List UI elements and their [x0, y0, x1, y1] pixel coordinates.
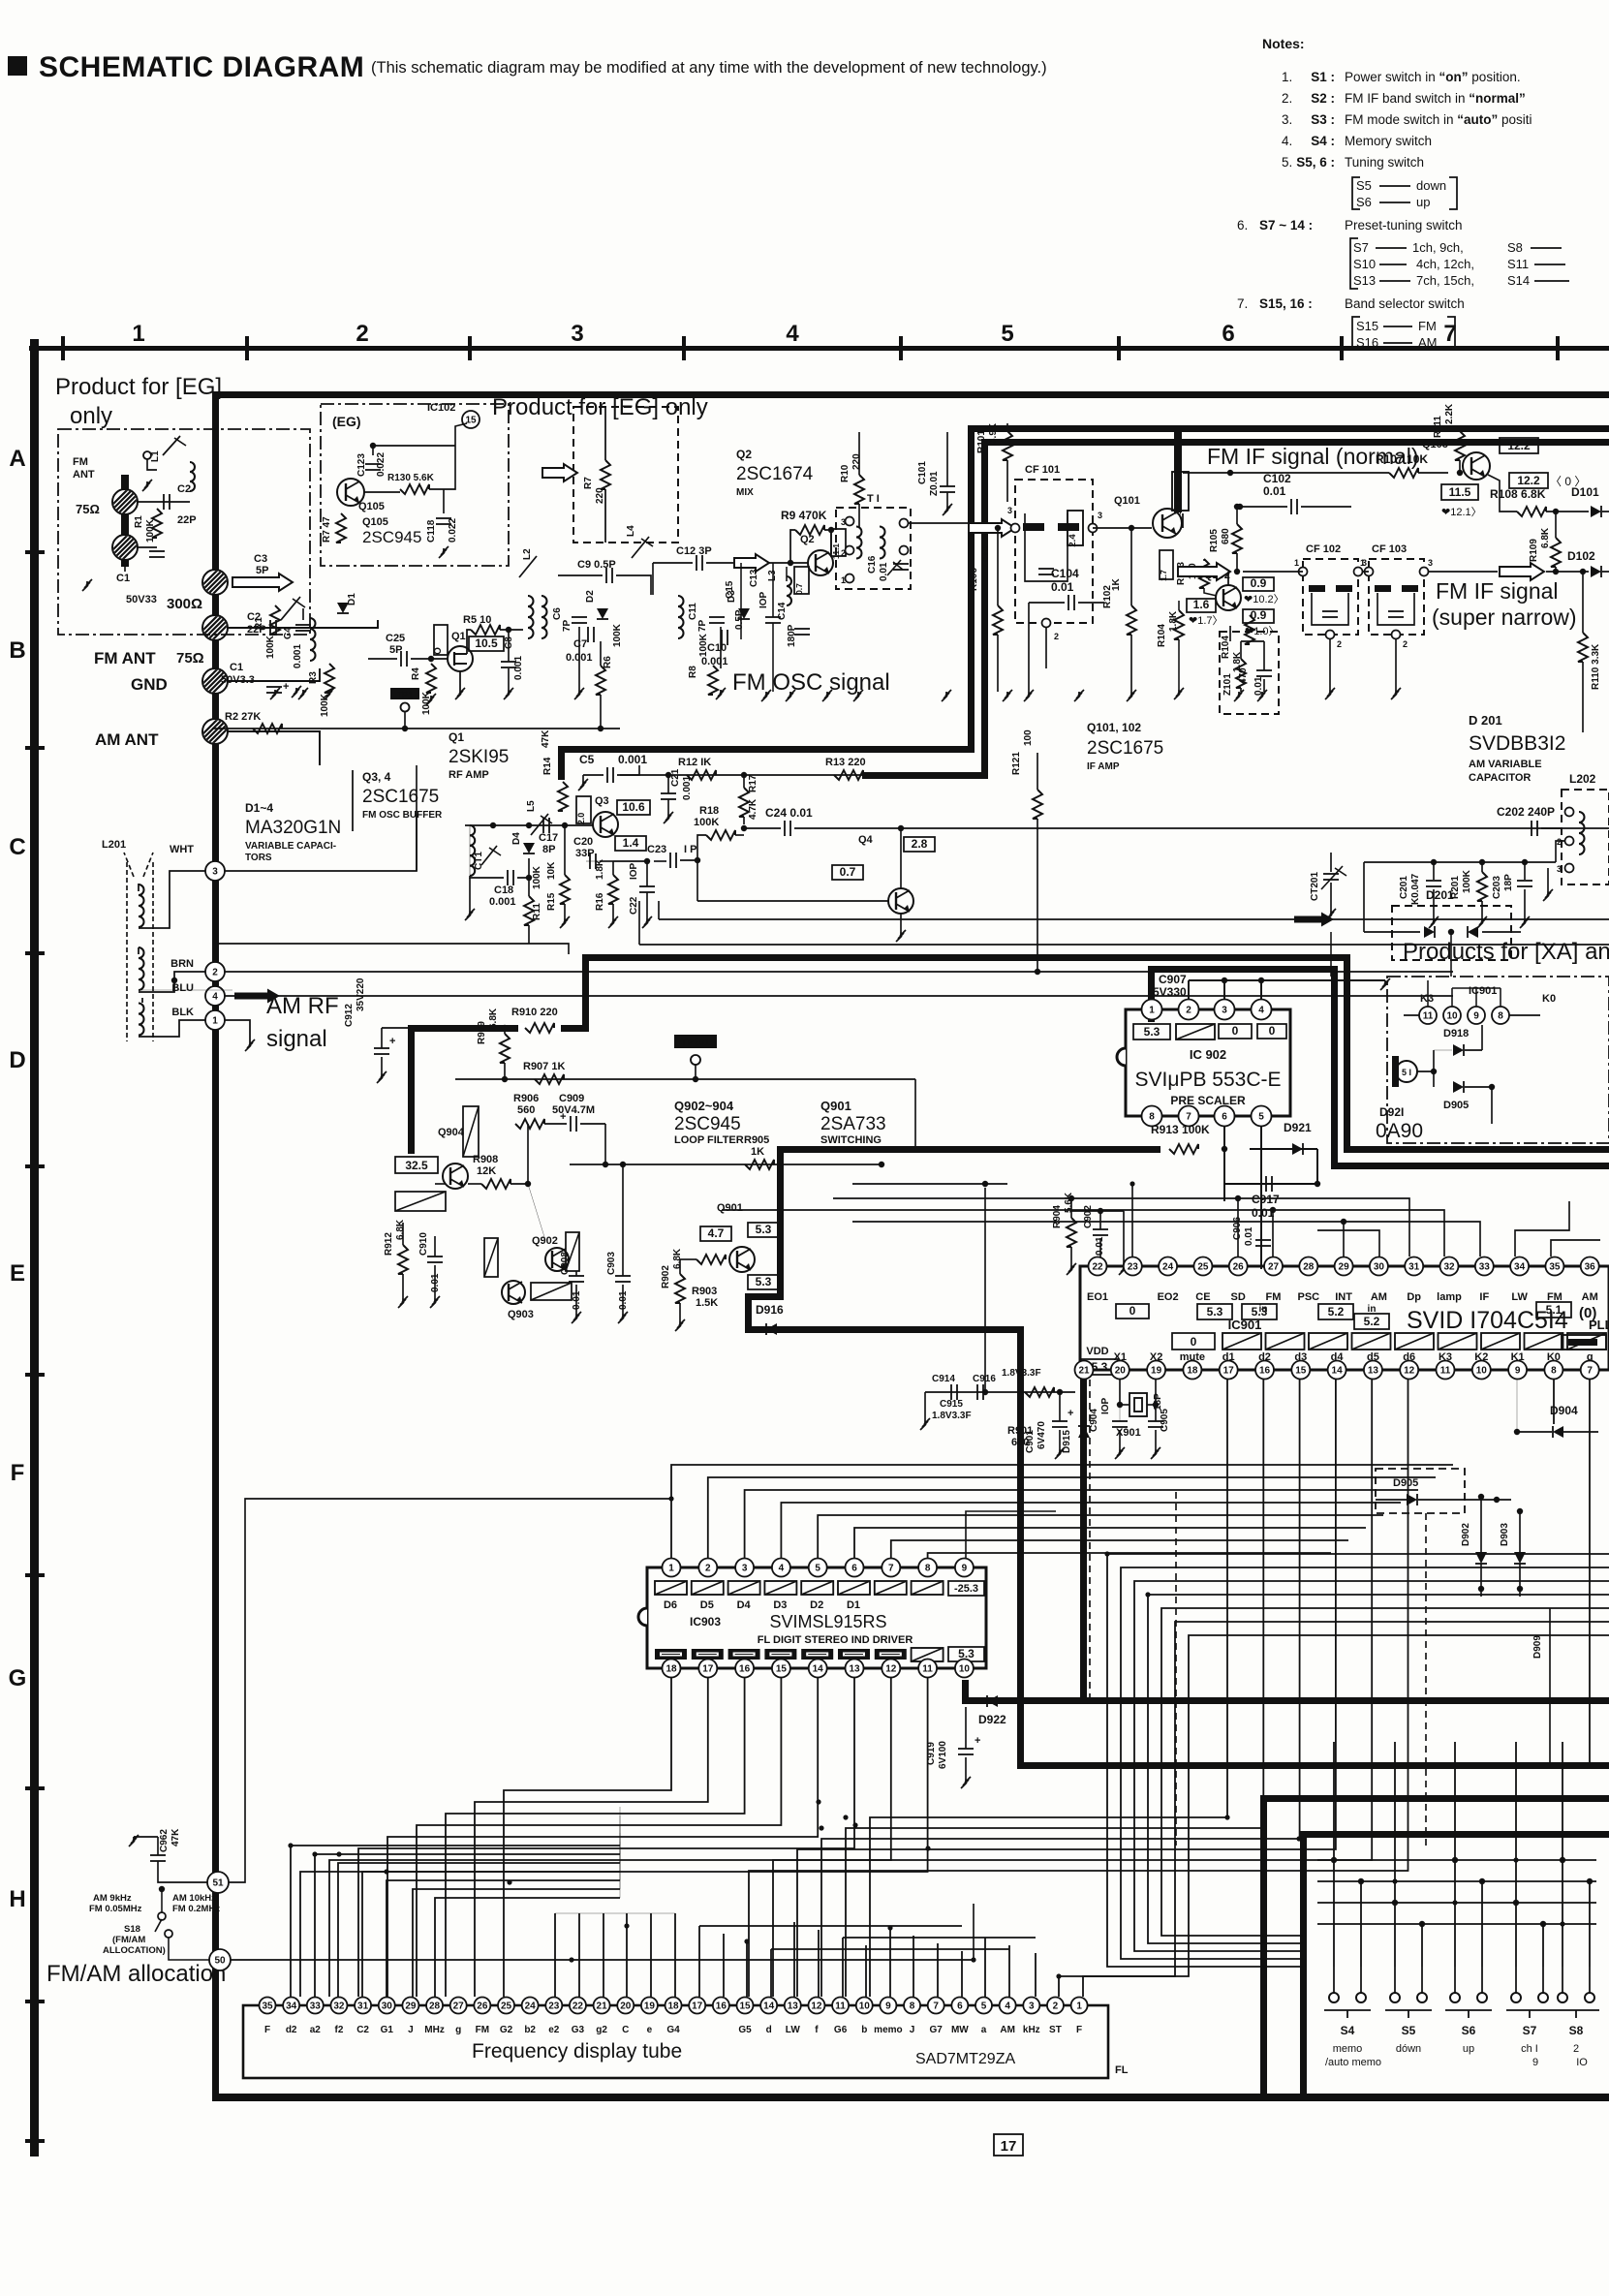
svg-text:R109: R109 [1529, 539, 1539, 562]
svg-text:2: 2 [705, 1564, 711, 1574]
svg-text:R14: R14 [542, 757, 553, 775]
svg-text:1: 1 [1076, 2001, 1082, 2012]
T1 trimmer arrow [887, 560, 901, 575]
switch S5 wires [1394, 1967, 1396, 1993]
node 4 circle [205, 986, 225, 1006]
svg-text:d: d [766, 2025, 772, 2035]
svg-text:Q2: Q2 [736, 448, 752, 461]
junction dots sprinkle [569, 1957, 573, 1962]
svg-text:IC102: IC102 [427, 402, 455, 414]
C22 10P [639, 885, 655, 887]
tube pin 27 [450, 1998, 467, 2014]
svg-text:IC 902: IC 902 [1190, 1047, 1226, 1062]
IC901 pin 8 [1544, 1361, 1563, 1380]
R7 47 resistor [336, 513, 346, 543]
svg-text:0: 0 [1269, 1024, 1276, 1038]
svg-text:R908: R908 [473, 1154, 498, 1165]
svg-text:Q902: Q902 [532, 1235, 558, 1247]
svg-text:C23: C23 [647, 844, 666, 855]
IC903 pin 8 [918, 1559, 937, 1577]
tube pin 4 [1000, 1998, 1016, 2014]
C919 6V100 [958, 1748, 974, 1750]
svg-text:33: 33 [310, 2001, 322, 2012]
tube pin 12 [808, 1998, 824, 2014]
IC901 pin 36 [1581, 1257, 1599, 1276]
svg-text:Notes:: Notes: [1262, 36, 1305, 51]
tube pin 8 [904, 1998, 920, 2014]
svg-text:-25.3: -25.3 [954, 1583, 978, 1595]
C903 0.01 [615, 1275, 631, 1277]
Q902 transistor [545, 1248, 569, 1271]
svg-text:g: g [455, 2025, 461, 2035]
svg-text:R18: R18 [699, 805, 719, 817]
svg-text:D4: D4 [737, 1599, 752, 1611]
tube pin 14 [760, 1998, 777, 2014]
svg-text:22P: 22P [177, 514, 197, 526]
svg-text:R201: R201 [1450, 876, 1461, 899]
svg-text:D915: D915 [1062, 1430, 1072, 1453]
svg-text:2: 2 [1337, 639, 1342, 649]
svg-text:34: 34 [286, 2001, 297, 2012]
svg-text:SVDBB3I2: SVDBB3I2 [1469, 732, 1565, 755]
svg-text:L2: L2 [522, 548, 533, 560]
svg-text:SVIMSL915RS: SVIMSL915RS [769, 1612, 886, 1631]
XA wires [1417, 1070, 1434, 1072]
heavy run y773 to R14 [558, 746, 975, 753]
svg-text:14: 14 [763, 2001, 775, 2012]
svg-text:MIX: MIX [736, 487, 754, 498]
IC902 pin 5 [1252, 1106, 1272, 1127]
svg-text:C104: C104 [1051, 567, 1079, 580]
svg-text:D4: D4 [511, 832, 522, 845]
vertical from R907 line [914, 1079, 916, 1149]
wire node4 BLU bus [225, 995, 1453, 997]
svg-text:+: + [1068, 1408, 1073, 1419]
wire to IC903 pin 5 [818, 1515, 1383, 1558]
svg-text:C202 240P: C202 240P [1497, 805, 1555, 819]
tube pin 30 [379, 1998, 395, 2014]
svg-text:1: 1 [1149, 1006, 1155, 1016]
svg-text:2.: 2. [1282, 91, 1292, 106]
R905 1K line [570, 1164, 882, 1165]
svg-text:13: 13 [849, 1664, 860, 1675]
svg-text:TORS: TORS [245, 853, 272, 863]
R12 1K rail y800 [620, 774, 862, 776]
TP201 black box [674, 1035, 717, 1048]
svg-text:K0: K0 [1542, 993, 1556, 1005]
svg-text:AM 9kHz: AM 9kHz [93, 1893, 132, 1904]
svg-text:21: 21 [1078, 1366, 1090, 1377]
svg-text:1ch, 9ch,: 1ch, 9ch, [1412, 240, 1464, 255]
svg-text:e2: e2 [548, 2025, 560, 2035]
svg-text:7: 7 [933, 2001, 939, 2012]
svg-text:S6: S6 [1356, 195, 1372, 209]
svg-text:33P: 33P [575, 848, 595, 859]
svg-text:R7 47: R7 47 [322, 516, 332, 543]
svg-text:ANT: ANT [73, 469, 95, 481]
tube pin 33 [307, 1998, 324, 2014]
svg-text:AM: AM [1582, 1291, 1598, 1303]
svg-text:25: 25 [1197, 1262, 1209, 1273]
products for XA dash-dot box [1387, 977, 1609, 1143]
IC901 pin 17 [1220, 1361, 1238, 1380]
IC902 pin 8 [1142, 1106, 1162, 1127]
R913 resistor [1169, 1144, 1198, 1154]
IC902 pin 6 [1215, 1106, 1235, 1127]
D905 diode xa [1453, 1081, 1464, 1093]
svg-text:❤1.7〉: ❤1.7〉 [1189, 614, 1223, 627]
svg-text:2SC945: 2SC945 [362, 528, 421, 546]
solid arrow on y949 [1294, 913, 1334, 927]
svg-text:R105: R105 [1209, 529, 1220, 552]
svg-text:Tuning switch: Tuning switch [1345, 155, 1424, 170]
Q904 transistor [443, 1164, 468, 1189]
C118 0.022 [436, 517, 451, 519]
svg-text:C912: C912 [344, 1004, 355, 1027]
svg-text:LOOP FILTER: LOOP FILTER [674, 1134, 744, 1146]
svg-text:SCHEMATIC DIAGRAM: SCHEMATIC DIAGRAM [39, 51, 364, 83]
svg-text:memo: memo [874, 2025, 902, 2035]
svg-text:3: 3 [1222, 1006, 1227, 1016]
svg-text:Frequency display tube: Frequency display tube [472, 2040, 682, 2063]
IC903 pin 15 [772, 1660, 790, 1678]
svg-text:S4 :: S4 : [1311, 134, 1335, 148]
transistor Q101 [1153, 509, 1182, 538]
svg-text:5.2: 5.2 [1364, 1315, 1380, 1328]
svg-text:IOP: IOP [629, 862, 639, 880]
IC902 pin6 wire down [1223, 1127, 1225, 1149]
svg-text:IF: IF [1479, 1291, 1489, 1303]
svg-text:0.022: 0.022 [448, 518, 458, 543]
wire tube pin col 0 [291, 1846, 620, 1997]
IC901 VDD box [1081, 1359, 1118, 1375]
IC901 pin 21 [1075, 1361, 1094, 1380]
svg-text:ch I: ch I [1521, 2043, 1538, 2055]
svg-text:R13 220: R13 220 [825, 757, 866, 768]
transistor Q4 [888, 888, 913, 914]
svg-text:G2: G2 [500, 2025, 513, 2035]
EG box2 wires [364, 491, 400, 493]
svg-text:13: 13 [788, 2001, 799, 2012]
tube pin 21 [594, 1998, 610, 2014]
svg-text:7P: 7P [562, 619, 572, 632]
IC903 pin 6 [846, 1559, 864, 1577]
node 51 circle [207, 1872, 229, 1893]
svg-text:C902: C902 [1083, 1205, 1094, 1228]
svg-text:8: 8 [910, 2001, 915, 2012]
svg-text:22: 22 [1092, 1262, 1103, 1273]
svg-text:R102: R102 [1102, 585, 1113, 608]
svg-text:C917: C917 [1252, 1193, 1280, 1206]
R15 10K [560, 875, 570, 904]
L202 dashed box [1562, 790, 1609, 884]
svg-text:IC903: IC903 [690, 1615, 721, 1629]
svg-text:2.0: 2.0 [576, 813, 586, 825]
svg-text:28: 28 [1303, 1262, 1315, 1273]
svg-text:29: 29 [405, 2001, 417, 2012]
svg-text:Q105: Q105 [358, 501, 385, 512]
svg-text:0.9: 0.9 [1251, 608, 1267, 622]
svg-text:12: 12 [811, 2001, 822, 2012]
svg-text:6.: 6. [1237, 218, 1248, 233]
bottom right heavy block outer [1260, 1795, 1609, 1802]
op-amp U IC902 body [1126, 1009, 1290, 1116]
svg-text:50: 50 [214, 1956, 226, 1967]
svg-text:FM OSC BUFFER: FM OSC BUFFER [362, 810, 443, 821]
svg-text:ALLOCATION): ALLOCATION) [103, 1945, 166, 1956]
svg-text:R9 470K: R9 470K [781, 509, 827, 522]
bus line y1249 [722, 1210, 1444, 1257]
svg-text:R15: R15 [546, 892, 557, 911]
D201 diodes [1364, 931, 1420, 933]
IC903 pin 3 [735, 1559, 754, 1577]
svg-text:FM: FM [1418, 319, 1437, 333]
wire to IC903 pin 7 [891, 1540, 1348, 1558]
svg-text:D909: D909 [1532, 1635, 1543, 1659]
IC902 pin 2 [1179, 1000, 1199, 1020]
svg-text:2SC1674: 2SC1674 [736, 464, 814, 484]
S18 switch [158, 1912, 166, 1920]
svg-text:100K: 100K [532, 865, 542, 889]
svg-text:5.3: 5.3 [1207, 1305, 1223, 1319]
svg-text:memo: memo [1333, 2043, 1363, 2055]
svg-text:10: 10 [1476, 1366, 1488, 1377]
CF103 dashed box [1369, 559, 1424, 635]
svg-text:33: 33 [1479, 1262, 1491, 1273]
svg-text:30: 30 [1374, 1262, 1385, 1273]
L1 main coil [281, 597, 300, 620]
D1 diode [337, 603, 349, 613]
arrow FM IF super narrow 2 [1500, 563, 1544, 580]
wire from IC901 pin 15 [821, 1380, 1300, 1997]
svg-text:FM ANT: FM ANT [94, 649, 156, 667]
C21 0.001 [661, 792, 676, 794]
switch S6 [1450, 1993, 1460, 2002]
svg-text:C914: C914 [932, 1374, 955, 1384]
svg-text:6: 6 [1222, 321, 1234, 347]
tube pin 28 [426, 1998, 443, 2014]
Q904 hatch boxes [463, 1106, 479, 1157]
svg-text:C201: C201 [1399, 876, 1409, 899]
svg-text:75Ω: 75Ω [76, 502, 100, 516]
svg-text:I P: I P [684, 844, 696, 855]
switch contact wire 6 [1515, 1903, 1517, 1967]
bus line y1222 [852, 1183, 1007, 1185]
svg-text:D 201: D 201 [1469, 713, 1502, 728]
svg-text:0.01: 0.01 [879, 562, 889, 581]
svg-text:8: 8 [1498, 1011, 1503, 1022]
CT1 trimmer coil [470, 825, 475, 835]
dashed route verticals [1425, 1513, 1427, 1846]
svg-text:AM VARIABLE: AM VARIABLE [1469, 759, 1542, 770]
svg-text:S7: S7 [1353, 240, 1369, 255]
svg-text:11: 11 [1423, 1011, 1434, 1022]
svg-text:Q904: Q904 [438, 1127, 465, 1138]
svg-text:6.8K: 6.8K [488, 1008, 499, 1029]
svg-text:S8: S8 [1507, 240, 1523, 255]
heavy C907 feed [1148, 966, 1338, 973]
transistor Q3 [593, 812, 618, 837]
svg-text:C4: C4 [283, 627, 294, 639]
svg-text:C908: C908 [560, 1252, 571, 1275]
svg-text:10.6: 10.6 [622, 800, 645, 814]
note 5 bracket S5/S6 [1352, 177, 1360, 209]
svg-text:300Ω: 300Ω [167, 596, 202, 612]
svg-text:EO1: EO1 [1087, 1291, 1108, 1303]
IC901 pin 15 [1291, 1361, 1310, 1380]
svg-text:C118: C118 [426, 519, 437, 543]
tube pin 32 [330, 1998, 347, 2014]
svg-text:Q903: Q903 [508, 1309, 534, 1320]
tube pin 2 [1047, 1998, 1064, 2014]
EG dash-dot box 2 [321, 404, 509, 566]
svg-text:220: 220 [851, 453, 862, 470]
svg-text:14: 14 [1332, 1366, 1344, 1377]
C4 0.001 [295, 624, 311, 626]
svg-text:180P: 180P [787, 624, 797, 647]
wire y974 rail [219, 944, 569, 954]
IC903 pin 9 [955, 1559, 974, 1577]
Z101 dashed box [1220, 632, 1279, 714]
svg-text:100K: 100K [265, 635, 276, 659]
heavy VDD drop x1119 [1080, 1371, 1087, 1704]
IC903 pin 10 [955, 1660, 974, 1678]
svg-text:FM/AM allocation: FM/AM allocation [46, 1961, 226, 1987]
bus line y1237 [833, 1198, 1409, 1257]
svg-text:D922: D922 [978, 1713, 1006, 1726]
svg-text:7ch, 15ch,: 7ch, 15ch, [1416, 273, 1474, 288]
svg-text:6: 6 [851, 1564, 857, 1574]
svg-text:C962: C962 [159, 1829, 170, 1852]
IC901 pin 23 [1124, 1257, 1142, 1276]
svg-text:LW: LW [1511, 1291, 1528, 1303]
AM RF heavy arrow [234, 989, 280, 1004]
svg-text:C1: C1 [116, 573, 130, 584]
svg-text:7: 7 [1587, 1366, 1593, 1377]
IC903 black bar row [655, 1649, 687, 1660]
svg-text:50V33: 50V33 [126, 594, 157, 605]
svg-text:2.2K: 2.2K [1444, 403, 1455, 424]
svg-text:13: 13 [1368, 1366, 1379, 1377]
IC901 pin 20 [1111, 1361, 1129, 1380]
tube pin 35 [260, 1998, 276, 2014]
bus line y949 [659, 918, 1609, 920]
svg-text:Band selector switch: Band selector switch [1345, 296, 1465, 311]
IC901 pin 25 [1193, 1257, 1212, 1276]
wire from IC903 pin 11 [300, 1678, 928, 1997]
svg-text:Z101: Z101 [1222, 673, 1233, 696]
svg-text:G3: G3 [572, 2025, 585, 2035]
svg-text:3: 3 [212, 867, 218, 878]
svg-text:5: 5 [1001, 321, 1013, 347]
svg-text:10: 10 [959, 1664, 971, 1675]
svg-text:S3 :: S3 : [1311, 112, 1335, 127]
svg-text:D6: D6 [664, 1599, 677, 1611]
IC901 pin 7 [1581, 1361, 1599, 1380]
IC902 pin5 wire down [1260, 1127, 1262, 1269]
C123 cap [365, 463, 381, 465]
svg-text:16: 16 [1259, 1366, 1271, 1377]
wire from IC901 pin 17 [870, 1380, 1227, 1997]
svg-text:100K: 100K [1462, 869, 1472, 893]
wire to IC903 pin 8 [928, 1553, 1331, 1558]
tube pin 10 [856, 1998, 873, 2014]
svg-text:7.: 7. [1237, 296, 1248, 311]
svg-text:9: 9 [1532, 2057, 1538, 2068]
heavy run y800 to R13 [862, 772, 988, 779]
wire node3 right [225, 814, 417, 871]
svg-text:30: 30 [382, 2001, 393, 2012]
node 51 connector [1396, 1061, 1417, 1082]
wires entering block from top [1333, 1742, 1335, 1860]
svg-text:SD: SD [1231, 1291, 1246, 1303]
svg-text:17: 17 [1001, 2138, 1017, 2155]
svg-text:15: 15 [465, 416, 477, 426]
svg-text:5.2: 5.2 [1328, 1305, 1345, 1319]
wire tube pin col 2 [338, 1863, 620, 1997]
svg-text:SVIμPB 553C-E: SVIμPB 553C-E [1135, 1069, 1282, 1091]
TP1 black box [390, 688, 419, 699]
svg-text:12K: 12K [477, 1165, 496, 1177]
wire node1 gnd [225, 1020, 250, 1041]
svg-text:S10: S10 [1353, 257, 1376, 271]
svg-text:5: 5 [981, 2001, 987, 2012]
svg-text:❤10.2〉: ❤10.2〉 [1244, 593, 1284, 605]
tube pin 1 [1071, 1998, 1088, 2014]
svg-text:20: 20 [620, 2001, 632, 2012]
svg-text:S15: S15 [1356, 319, 1378, 333]
svg-text:Q4: Q4 [858, 834, 874, 846]
bus wire right 6 [1083, 1635, 1609, 1997]
svg-text:C: C [9, 834, 25, 860]
CF101 dashed box [1015, 480, 1093, 623]
svg-text:D1: D1 [847, 1599, 860, 1611]
svg-text:7: 7 [1443, 321, 1456, 347]
IC902 pin 3 [1215, 1000, 1235, 1020]
wire tube mid col 3 [626, 1913, 628, 1997]
svg-text:B: B [9, 637, 25, 664]
svg-text:18: 18 [665, 1664, 677, 1675]
svg-text:47K: 47K [170, 1828, 181, 1846]
wire to IC903 pin 3 [745, 1490, 1418, 1558]
switch contact wire 4 [1454, 1860, 1456, 1967]
svg-text:5V330: 5V330 [1153, 985, 1187, 999]
tube pin 19 [641, 1998, 658, 2014]
svg-text:R110 3.3K: R110 3.3K [1591, 643, 1601, 690]
EG C2 cap [138, 501, 190, 503]
EG antenna dash-dot box [58, 429, 310, 635]
wire to IC903 pin 2 [708, 1477, 1436, 1558]
svg-text:D905: D905 [1443, 1100, 1469, 1111]
svg-text:24: 24 [525, 2001, 537, 2012]
wire tube mid col 1 [578, 1913, 580, 1997]
tube pin 18 [665, 1998, 682, 2014]
svg-text:9: 9 [885, 2001, 891, 2012]
svg-text:C15: C15 [725, 580, 735, 599]
svg-text:1: 1 [132, 321, 144, 347]
tube pin 16 [713, 1998, 729, 2014]
svg-text:R6: R6 [603, 656, 613, 668]
svg-text:L4: L4 [626, 525, 636, 537]
svg-text:(super narrow): (super narrow) [1432, 605, 1577, 630]
svg-text:220: 220 [595, 487, 605, 504]
svg-text:TP1: TP1 [397, 690, 414, 699]
svg-text:C: C [622, 2025, 629, 2035]
svg-text:J: J [408, 2025, 414, 2035]
svg-text:2SC1675: 2SC1675 [362, 787, 439, 807]
wire node3 vertical [416, 765, 418, 871]
tube pin 24 [522, 1998, 539, 2014]
